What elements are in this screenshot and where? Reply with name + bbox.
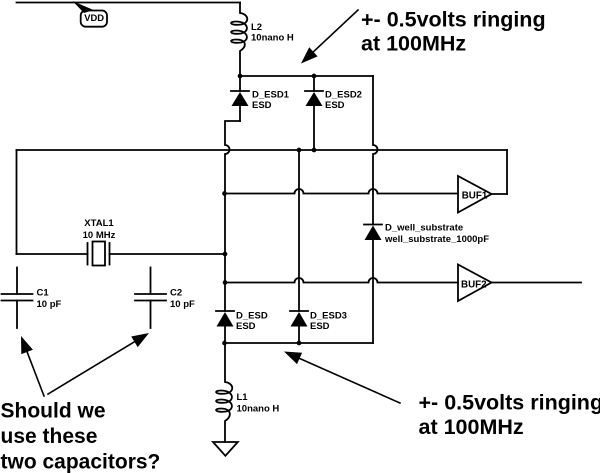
annotation arrow to C1 (21, 336, 44, 396)
node junction XTAL right (223, 252, 228, 257)
wire XTAL1 right lead (110, 253, 226, 255)
wire ground rail (224, 342, 373, 344)
node junction D_ESD2 top (312, 74, 317, 79)
inductor L2 (231, 3, 247, 77)
wire D_well column lower (372, 240, 374, 343)
svg-text:+- 0.5volts ringing: +- 0.5volts ringing (419, 391, 600, 415)
node junction D_ESD2 bottom (312, 148, 317, 153)
VDD net flag pointer (73, 1, 94, 13)
svg-text:Should we: Should we (1, 400, 106, 423)
svg-text:L1: L1 (237, 392, 249, 403)
wire top ESD rail (240, 75, 373, 77)
node junction L1 top (222, 341, 227, 346)
node junction at L2 bottom (238, 74, 243, 79)
wire BUF1 input with hops (224, 189, 458, 194)
svg-text:10nano H: 10nano H (237, 404, 280, 415)
svg-text:C1: C1 (37, 288, 50, 299)
inductor L1 (216, 343, 232, 442)
annotation arrow top ringing (301, 10, 358, 64)
wire left vertical (16, 150, 18, 254)
wire jog D_ESD1 to left column with hop over node XO (225, 121, 240, 311)
crystal XTAL1 (88, 242, 110, 266)
diode D_ESD2 (305, 76, 323, 150)
wire feedback right vertical (506, 150, 508, 194)
diode D_well_substrate (364, 225, 382, 241)
svg-text:ESD: ESD (310, 321, 330, 332)
wire BUF2 output (492, 282, 582, 284)
node junction XI column top (297, 148, 302, 153)
node junction BUF2 input tap (223, 280, 228, 285)
svg-text:D_ESD: D_ESD (236, 310, 268, 321)
ground (213, 442, 238, 456)
buffer U BUF1 (458, 176, 492, 213)
wire VDD rail (17, 2, 241, 4)
svg-text:D_ESD3: D_ESD3 (310, 310, 347, 321)
svg-text:BUF2: BUF2 (461, 280, 487, 291)
svg-text:10 pF: 10 pF (170, 299, 195, 310)
annotation arrow to C2 (48, 333, 149, 394)
svg-text:at 100MHz: at 100MHz (419, 415, 524, 439)
diode D_ESD3 (290, 311, 308, 343)
wire node XO horizontal (17, 149, 508, 151)
capacitor C1 (2, 268, 33, 329)
svg-text:ESD: ESD (236, 321, 256, 332)
node junction BUF1 input tap (222, 191, 227, 196)
capacitor C2 (135, 268, 166, 329)
svg-text:BUF1: BUF1 (462, 191, 488, 202)
svg-text:10 pF: 10 pF (37, 299, 62, 310)
svg-text:ESD: ESD (325, 100, 345, 111)
svg-text:use these: use these (1, 425, 98, 448)
wire D_well column upper with hop (373, 76, 378, 225)
wire D_ESD3 column (298, 150, 300, 311)
svg-text:at 100MHz: at 100MHz (361, 32, 466, 56)
diode D_ESD (216, 311, 234, 343)
buffer U BUF2 (458, 265, 492, 302)
diode D_ESD1 (231, 76, 249, 121)
annotation arrow bottom ringing (284, 352, 400, 404)
wire BUF1 output stub (492, 193, 508, 195)
svg-text:ESD: ESD (252, 100, 272, 111)
svg-text:L2: L2 (251, 22, 262, 33)
wire BUF2 input with hops (225, 278, 458, 283)
svg-text:10 MHz: 10 MHz (83, 230, 116, 241)
svg-text:two capacitors?: two capacitors? (1, 451, 161, 473)
svg-text:XTAL1: XTAL1 (84, 218, 114, 229)
svg-text:+- 0.5volts ringing: +- 0.5volts ringing (361, 8, 546, 32)
svg-text:D_ESD1: D_ESD1 (252, 89, 290, 100)
VDD net label (81, 11, 107, 27)
svg-text:D_well_substrate: D_well_substrate (385, 223, 463, 234)
wire XTAL1 left lead (17, 253, 88, 255)
svg-text:C2: C2 (170, 288, 182, 299)
node junction D_ESD3 bottom (297, 341, 302, 346)
svg-text:VDD: VDD (84, 12, 104, 23)
svg-text:well_substrate_1000pF: well_substrate_1000pF (384, 234, 489, 245)
svg-text:10nano H: 10nano H (251, 33, 294, 44)
svg-text:D_ESD2: D_ESD2 (325, 89, 362, 100)
